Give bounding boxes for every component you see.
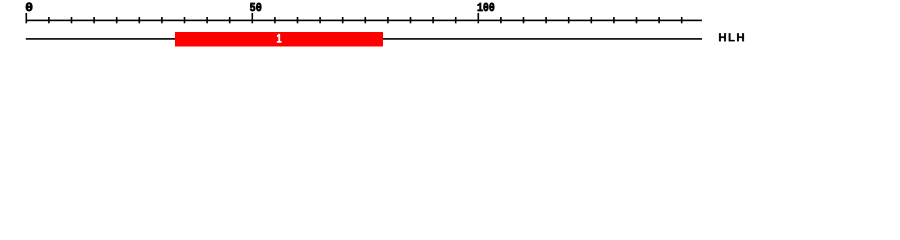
background [0,0,900,58]
domain box 1 (red) [175,32,383,47]
major tick 0 [26,13,28,23]
sequence line [26,38,702,40]
domain box label 1 [277,34,281,42]
major tick 50 [252,13,254,23]
ruler label 0 [26,3,32,12]
ruler label 100 [478,3,495,11]
ruler label 50 [250,3,261,11]
text HLH [719,33,744,41]
ruler axis line [26,20,703,22]
major tick 100 [478,13,480,23]
minor ticks group [48,17,682,23]
